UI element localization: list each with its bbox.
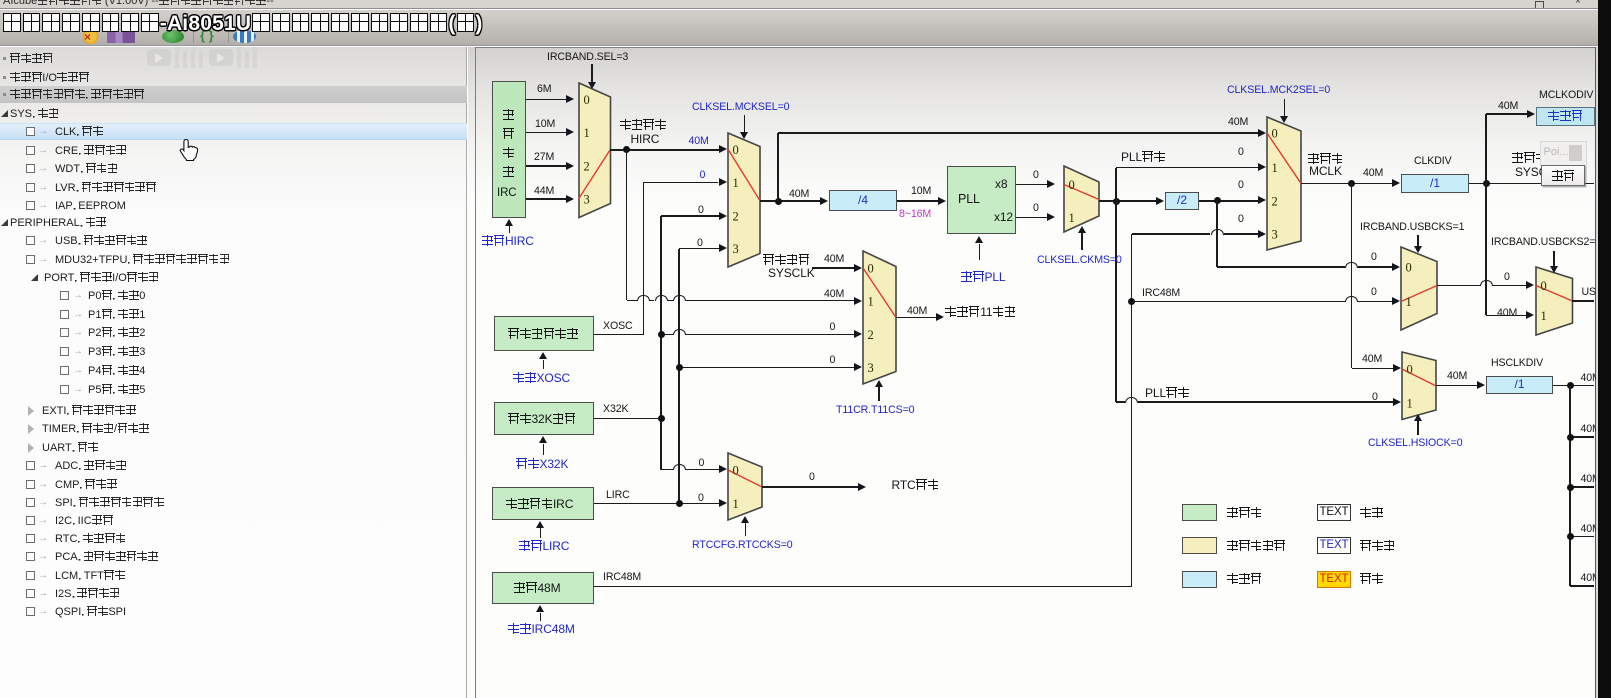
wire hop at 1351.5,267 [1345, 262, 1358, 268]
wire XOSC en stem [543, 360, 545, 370]
wire IRC 27M to U1.2 [526, 165, 566, 167]
tree selected blue row (CLK) [0, 123, 467, 141]
wire HS bus branch 2 [1570, 436, 1594, 438]
label USB [1582, 287, 1603, 298]
label 40M [789, 189, 809, 200]
label 关闭LIRC [519, 540, 569, 552]
arrowhead IRCBAND.SEL [588, 82, 596, 89]
label 0 [1238, 180, 1244, 191]
svg-text:0: 0 [733, 464, 739, 478]
schematic panel background [468, 47, 1596, 698]
wire X32K to U3.2 [661, 334, 673, 335]
Pointofix start button [1541, 165, 1586, 186]
label MCLK [1309, 166, 1342, 177]
wire X32K vertical [660, 216, 662, 470]
window close button [1575, 0, 1581, 7]
wire IRC 44M to U1.3 [526, 198, 566, 200]
label 0 [698, 205, 704, 216]
wire SYSCLK 40M to U3.0 [812, 267, 855, 269]
legend TEXT error [1317, 571, 1351, 588]
mux U1 red select line input3 [576, 146, 612, 202]
node /2 output node [1214, 197, 1221, 204]
svg-text:0: 0 [583, 93, 589, 107]
wire RTCCKS stem [745, 523, 747, 536]
clock source 内部低速IRC LIRC [492, 487, 594, 520]
arrowhead RTCCKS [741, 516, 749, 523]
screen black edge [1598, 0, 1611, 698]
toolbar icon purple [107, 32, 135, 43]
wire U3 out timer11 clock [896, 317, 937, 319]
MCLKODIV output selector 不输出 [1536, 107, 1595, 126]
label IRCBAND.SEL=3 [547, 52, 628, 63]
label 0 [830, 355, 836, 366]
node SYSCLK node [1483, 180, 1490, 187]
legend TEXT configurable [1317, 537, 1351, 554]
wire /2 out to U6.2 [1199, 200, 1259, 202]
arrowhead MCKSEL [740, 132, 748, 139]
label 定时器11时钟 [945, 306, 1016, 318]
arrowhead PLL en [975, 236, 983, 243]
svg-text:1: 1 [1406, 295, 1412, 309]
label 44M [534, 186, 554, 197]
label 0 [1033, 203, 1039, 214]
svg-text:0: 0 [1406, 261, 1412, 275]
wire LIRC to U3.3 [679, 367, 855, 369]
clock source 内部48M IRC48M [492, 572, 594, 604]
wire IRC48M wire [594, 586, 1132, 588]
label 使能HIRC [482, 235, 534, 247]
wire MCKSEL arrow stem [744, 115, 746, 132]
svg-text:1: 1 [733, 497, 739, 511]
tree row MDU32+TFPU，硬件浮点三角函数库 [26, 255, 35, 264]
label IRC48M [1142, 288, 1180, 299]
wire hop at 679,469.5 [673, 464, 686, 470]
label IRCBAND.USBCKS2=0 [1491, 237, 1601, 248]
label 0 [697, 238, 703, 249]
video overlay title [2, 12, 483, 36]
wire hop at 643.3,300.8 [637, 295, 650, 301]
svg-text:3: 3 [1272, 228, 1278, 242]
label 0 [1371, 252, 1377, 263]
tree row RTC，实时时钟 [26, 534, 35, 543]
mux IRCBAND.USBCKS2 U8 [1534, 265, 1575, 337]
label X32K [603, 404, 628, 415]
label CLKDIV [1414, 156, 1452, 167]
Pointofix popup window [1541, 142, 1586, 166]
label SYSCLK [768, 268, 815, 279]
wire SYSCLK down branch [1485, 183, 1487, 315]
wire PLL clock up branch [1115, 168, 1117, 202]
tree row IAP，EEPROM [26, 201, 35, 210]
label T11CR.T11CS=0 [836, 405, 914, 416]
label 40M [1497, 308, 1517, 319]
svg-text:1: 1 [732, 176, 738, 190]
tree row P4口，端口4 [60, 366, 69, 375]
label 0 [698, 493, 704, 504]
label 27M [534, 152, 554, 163]
wire HS bus branch 3 [1570, 486, 1594, 488]
node IRC48M node [1128, 298, 1135, 305]
tree row P3口，端口3 [60, 347, 69, 356]
mux IRCBAND.USBCKS U7 [1399, 245, 1439, 332]
svg-text:2: 2 [732, 210, 738, 224]
label 0 [1371, 287, 1377, 298]
label 6M [537, 84, 551, 95]
wire MCK2SEL arrow stem [1284, 99, 1286, 116]
label CLKSEL.CKMS=0 [1037, 255, 1122, 266]
tree row CRE，自动追频 [26, 146, 35, 155]
arrowhead T11CS [875, 380, 883, 387]
svg-text:0: 0 [1069, 178, 1075, 192]
wire MCLK down branch [1351, 183, 1353, 368]
label 关闭PLL [961, 271, 1005, 283]
PLL block [947, 166, 1016, 234]
node HS bus node 3 [1567, 484, 1574, 491]
wire T11CS stem [878, 387, 880, 401]
toolbar strip [0, 10, 1598, 46]
label PLL时钟 [1121, 151, 1165, 163]
label 40M bus 523.5 [1581, 524, 1601, 535]
tree row PERIPHERAL，外设 [1, 219, 8, 226]
schematic panel borders [475, 47, 1596, 48]
wire PLL en stem [979, 244, 981, 261]
wire IRC48M en stem [540, 613, 542, 622]
toolbar separator [228, 31, 229, 43]
wire CLKDIV out SYSCLK [1469, 183, 1594, 185]
label IRC48M [603, 572, 641, 583]
wire U8 out USB clock [1572, 300, 1594, 302]
tree row 项目设置 [3, 57, 6, 60]
arrowhead HIRC en [505, 219, 513, 226]
wire HIRC vertical down [626, 150, 628, 301]
label SYSCLK [1515, 167, 1562, 178]
mouse hand cursor [179, 138, 199, 161]
wire HIRC U1 out to U2.0 [610, 149, 719, 151]
wire LIRC vertical [678, 249, 680, 504]
mux CLKSEL.MCKSEL U2 [726, 131, 762, 269]
wire HS bus branch 4 [1570, 536, 1594, 538]
wire U6 out MCLK to CLKDIV [1301, 183, 1393, 185]
label 0 [1504, 272, 1510, 283]
tree row USB，通用串行总线 [26, 236, 35, 245]
divider /2 [1165, 192, 1199, 210]
toolbar icon green sphere [162, 30, 184, 43]
wire CKMS stem [1081, 233, 1083, 250]
label 0 [1033, 170, 1039, 181]
clock source 内部高速IRC [492, 81, 526, 218]
svg-text:3: 3 [868, 361, 874, 375]
tree row WDT，看门狗 [26, 164, 35, 173]
label 10M [535, 119, 555, 130]
label 40M bus 474 [1581, 474, 1601, 485]
wire hop at 1217,234 [1211, 229, 1224, 235]
wire XOSC vertical to U2.1 [643, 182, 645, 334]
tree row EXTI，传统外部中断 [28, 406, 39, 416]
arrowhead USBCKS [1414, 246, 1422, 253]
wire U2 out vertical up [777, 133, 779, 201]
label IRCBAND.USBCKS=1 [1360, 222, 1464, 233]
mux CLKSEL.MCK2SEL U6 [1265, 115, 1303, 252]
wire IRC48M vertical [1131, 234, 1133, 587]
label PLL时钟2 [1145, 387, 1189, 399]
label 40M [1362, 354, 1382, 365]
label 0 [700, 170, 706, 181]
label 0 [830, 322, 836, 333]
wire hop at 679,300.8 [673, 295, 686, 301]
tree row 图形化时钟配置，一般不设置 [3, 93, 6, 96]
legend clock source swatch [1182, 504, 1217, 521]
toolbar icon braces [200, 29, 222, 42]
svg-text:0: 0 [1540, 279, 1546, 293]
arrowhead IRC48M en [536, 605, 544, 612]
node HIRC node [623, 146, 630, 153]
wire PLL clock to U9.1 [1116, 401, 1125, 402]
wire HS bus branch 5 [1570, 585, 1594, 587]
wire U5 out to /2 [1099, 200, 1157, 202]
wire LIRC to U2.3 [679, 248, 719, 250]
node U2 output node [775, 198, 782, 205]
label XOSC [603, 321, 633, 332]
svg-text:1: 1 [1540, 309, 1546, 323]
wire U4 out RTC clock [762, 486, 858, 488]
label 40M [689, 136, 709, 147]
tree row ADC，模数转换 [26, 461, 35, 470]
tree row SYS，系统 [1, 110, 8, 117]
wire HIRC en stem [509, 226, 511, 233]
node PLL clock node [1113, 198, 1120, 205]
tree row LCM，TFT彩屏 [26, 571, 35, 580]
tree row PCA，可编程计数器组 [26, 552, 35, 561]
wire LIRC en stem [540, 528, 542, 538]
svg-text:0: 0 [1272, 127, 1278, 141]
wire /2 to U7.0 [1217, 266, 1345, 267]
wire HIRC to U3.1 [627, 300, 637, 301]
label 40M bus 424 [1581, 424, 1601, 435]
toolbar icon orange [80, 30, 101, 44]
svg-text:0: 0 [868, 262, 874, 276]
label 关闭XOSC [513, 372, 570, 384]
left tree panel [0, 47, 467, 698]
label 0 [1238, 214, 1244, 225]
node HS bus node 2 [1567, 434, 1574, 441]
label 系统时钟 [763, 254, 810, 266]
bilibili watermark ghost [147, 47, 260, 68]
tree row CMP，比较器 [26, 480, 35, 489]
label 0 [1372, 392, 1378, 403]
wire SYSCLK to U8.1 [1486, 315, 1526, 317]
label 40M [824, 289, 844, 300]
wire X32K en stem [543, 444, 545, 456]
wire SYSCLK to MCLKODIV [1486, 113, 1528, 115]
wire LIRC wire to U4.1 [594, 503, 719, 505]
tree row P0口，端口0 [60, 291, 69, 300]
node HS bus node 4 [1567, 533, 1574, 540]
tree row I2S，音频总线 [26, 589, 35, 598]
label LIRC [606, 490, 630, 501]
wire IRC 6M to U1.0 [526, 99, 566, 101]
node MCLK node [1348, 180, 1355, 187]
svg-text:1: 1 [583, 126, 589, 140]
wire X32K to U2.2 [661, 215, 719, 217]
svg-text:0: 0 [1407, 362, 1413, 376]
wire U9 out to HSCLKDIV [1436, 385, 1478, 387]
label 40M [907, 306, 927, 317]
svg-text:2: 2 [868, 328, 874, 342]
label 10M [911, 186, 931, 197]
wire MCLK candidate 40M to U6.0 [778, 132, 1259, 134]
arrowhead X32K en [539, 436, 547, 443]
label 40M [1228, 117, 1248, 128]
label 0 [1238, 147, 1244, 158]
wire /4 to PLL 10M [897, 200, 939, 202]
toolbar separator [193, 31, 194, 43]
wire MCLK to U9.0 [1352, 368, 1394, 370]
tree row QSPI，四线SPI [26, 607, 35, 616]
wire U2 out to /4 [760, 200, 821, 202]
wire IRCBAND.SEL arrow stem [591, 64, 593, 82]
label 关闭X32K [516, 458, 568, 470]
tree row TIMER，定时器/计数器 [28, 424, 39, 434]
label HSCLKDIV [1491, 358, 1543, 369]
legend TEXT plain [1317, 504, 1351, 521]
label 40M [1447, 371, 1467, 382]
arrowhead XOSC en [539, 352, 547, 359]
mux T11CR.T11CS U3 [861, 249, 898, 386]
label 40M bus 373 [1581, 373, 1601, 384]
wire SYSCLK up to MCLKODIV [1485, 114, 1487, 183]
wire X32K wire [594, 418, 661, 420]
wire hop at 1131.7,402 [1125, 397, 1138, 403]
wire X32K to U4.0 [661, 469, 673, 470]
tree row P1口，端口1 [60, 310, 69, 319]
label HIRC [631, 134, 660, 145]
legend divider swatch [1182, 571, 1217, 588]
tree row 图形化I/O口配置 [3, 76, 6, 79]
wire IRC 10M to U1.1 [526, 132, 566, 134]
label legend 分频器 [1227, 573, 1262, 585]
wire /2 down branch [1216, 201, 1218, 267]
tree row P2口，端口2 [60, 328, 69, 337]
label RTCCFG.RTCCKS=0 [692, 540, 793, 551]
svg-text:0: 0 [732, 143, 738, 157]
window restore button [1535, 1, 1544, 9]
tree row P5口，端口5 [60, 385, 69, 394]
label CLKSEL.HSIOCK=0 [1368, 438, 1462, 449]
toolbar icon blue globe [233, 30, 256, 43]
wire PLL x12 to U5.1 [1016, 217, 1047, 219]
divider HSCLKDIV /1 [1486, 376, 1553, 394]
window title bar [0, 0, 1598, 9]
node LIRC branch node T11 [676, 364, 683, 371]
label 关闭IRC48M [508, 623, 575, 635]
wire PLL x8 to U5.0 [1016, 184, 1047, 186]
label 8~16M [899, 209, 931, 220]
tree row PORT，端口及I/O口中断 [31, 274, 38, 281]
label 40M [1498, 101, 1518, 112]
legend mux swatch [1182, 537, 1217, 554]
arrowhead CKMS [1078, 226, 1086, 233]
label legend 错误 [1360, 573, 1383, 585]
svg-text:1: 1 [1272, 161, 1278, 175]
label legend 时钟源 [1227, 507, 1262, 519]
arrowhead MCK2SEL [1280, 116, 1288, 123]
wire IRC48M to U7.1 [1132, 301, 1345, 302]
tree row LVR，复位和低压检测 [26, 183, 35, 192]
wire hop at 679,334.5 [673, 329, 686, 335]
label legend 多路选择器 [1227, 540, 1286, 552]
wire PLL clock to U6.1 [1116, 167, 1259, 169]
wire U7 out to U8.0 [1437, 285, 1480, 286]
label legend 文本 [1360, 507, 1383, 519]
wire HS output bus [1569, 386, 1571, 586]
tree selected gray row [0, 86, 467, 103]
tree row UART，串口 [28, 443, 39, 453]
tree row I2C，IIC总线 [26, 516, 35, 525]
wire XOSC to U2.1 [643, 182, 718, 184]
node X32K node [658, 415, 665, 422]
wire HSCLKDIV out [1553, 385, 1594, 387]
label 主时钟 [1308, 153, 1343, 165]
wire hop at 1486,285.5 [1480, 280, 1493, 286]
label MCLKODIV [1539, 90, 1593, 101]
label legend 可配置 [1360, 540, 1395, 552]
label 0 [809, 472, 815, 483]
label RTC时钟 [892, 479, 940, 491]
svg-text:3: 3 [732, 242, 738, 256]
node X32K branch node T11 [658, 331, 665, 338]
wire hop at 1351.5,301.5 [1345, 296, 1358, 302]
svg-text:1: 1 [1069, 211, 1075, 225]
svg-text:1: 1 [868, 295, 874, 309]
clock source 外部32K晶振 X32K [494, 402, 594, 435]
tree row CLK，时钟 [26, 127, 35, 136]
arrowhead LIRC en [536, 521, 544, 528]
label 系统时钟2 [1512, 152, 1559, 164]
wire USBCKS2 arrow stem [1553, 251, 1555, 266]
node LIRC node [676, 500, 683, 507]
svg-text:2: 2 [1272, 194, 1278, 208]
divider CLKDIV /1 [1401, 174, 1469, 193]
label CLKSEL.MCKSEL=0 [692, 102, 789, 113]
tree row SPI，同步串行外设接口 [26, 498, 35, 507]
svg-text:1: 1 [1407, 396, 1413, 410]
mux CLKSEL.CKMS U5 [1062, 164, 1101, 234]
divider /4 [829, 190, 897, 211]
arrowhead HSIOCK [1414, 414, 1422, 421]
label CLKSEL.MCK2SEL=0 [1227, 85, 1330, 96]
mux RTCCFG.RTCCKS U4 [726, 451, 764, 522]
label 40M bus 573 [1581, 573, 1601, 584]
wire PLL clock down branch [1115, 201, 1117, 402]
mux IRCBAND.SEL U1 [577, 81, 613, 220]
wire hop at 661,300.8 [655, 295, 668, 301]
label 内部高速 [620, 119, 667, 131]
arrowhead USBCKS2 [1550, 266, 1558, 273]
wire IRC48M to U6.3 [1132, 233, 1211, 234]
node HS bus node 1 [1567, 382, 1574, 389]
label 40M [1363, 168, 1383, 179]
mux CLKSEL.HSIOCK U9 [1400, 350, 1438, 422]
wire USBCKS arrow stem [1417, 235, 1419, 246]
wire HSIOCK stem [1417, 421, 1419, 435]
wire XOSC wire [594, 334, 643, 336]
clock source 外部高速晶振 XOSC [494, 316, 594, 351]
label 0 [699, 458, 705, 469]
label 40M [824, 254, 844, 265]
